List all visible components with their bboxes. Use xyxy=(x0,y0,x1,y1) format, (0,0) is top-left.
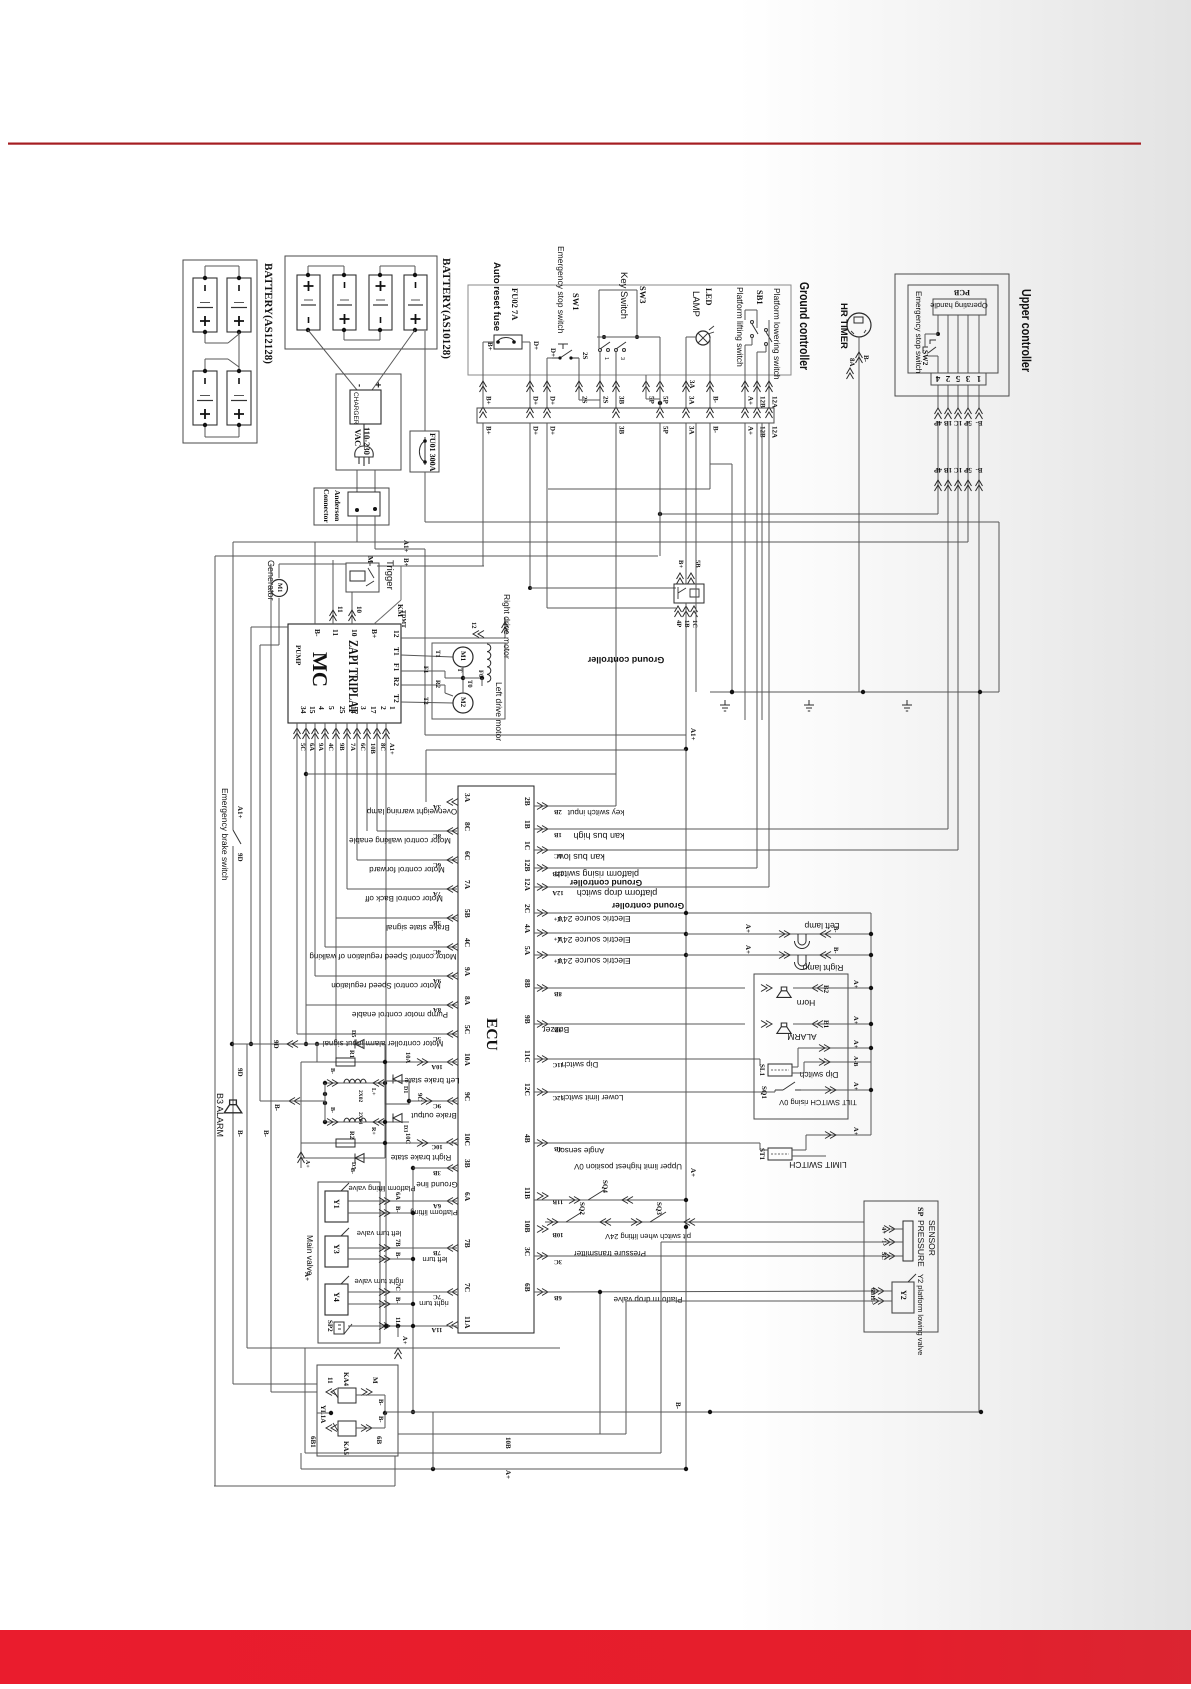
svg-text:+: + xyxy=(372,382,383,388)
svg-text:6B: 6B xyxy=(375,1436,383,1445)
svg-text:Ground line: Ground line xyxy=(416,1180,458,1189)
svg-text:A+: A+ xyxy=(747,426,755,435)
svg-text:8B: 8B xyxy=(523,979,532,988)
svg-text:6A: 6A xyxy=(308,743,315,751)
svg-text:Left brake state: Left brake state xyxy=(404,1076,460,1085)
svg-text:11A: 11A xyxy=(463,1316,472,1329)
svg-text:TILT SWITCH rising 0V: TILT SWITCH rising 0V xyxy=(779,1098,857,1107)
svg-text:B-: B- xyxy=(832,926,839,933)
svg-text:Motor control Speed regulatio: Motor control Speed regulation of walkin… xyxy=(309,952,456,961)
svg-text:10: 10 xyxy=(350,629,359,637)
svg-text:9B: 9B xyxy=(523,1015,532,1024)
svg-text:6B1B-: 6B1B- xyxy=(869,1288,875,1304)
svg-text:B+: B+ xyxy=(485,396,493,405)
svg-text:Dip switch: Dip switch xyxy=(799,1070,838,1080)
svg-text:5A: 5A xyxy=(523,946,532,956)
svg-text:A+: A+ xyxy=(852,1040,859,1049)
svg-text:R2: R2 xyxy=(348,1131,355,1139)
svg-text:R+: R+ xyxy=(370,1127,376,1135)
svg-text:3A: 3A xyxy=(463,793,472,803)
svg-text:Left drive motor: Left drive motor xyxy=(494,682,504,741)
svg-text:FU01 300A: FU01 300A xyxy=(428,433,437,472)
svg-text:platform drop switch: platform drop switch xyxy=(577,888,658,898)
svg-text:5P: 5P xyxy=(662,396,670,405)
svg-text:15: 15 xyxy=(308,706,317,714)
svg-text:D5: D5 xyxy=(350,1030,356,1037)
svg-text:platform rising switch: platform rising switch xyxy=(555,869,639,879)
svg-text:Ground controller: Ground controller xyxy=(797,282,812,370)
svg-text:1B: 1B xyxy=(523,820,532,829)
svg-text:SQ1: SQ1 xyxy=(760,1086,768,1099)
svg-text:9C: 9C xyxy=(416,1093,423,1101)
svg-text:A+: A+ xyxy=(504,1470,512,1479)
svg-text:B-: B- xyxy=(394,1252,401,1259)
svg-text:B-: B- xyxy=(674,1402,682,1410)
svg-text:2B: 2B xyxy=(523,797,532,806)
svg-text:17: 17 xyxy=(369,706,378,714)
svg-text:Motor control Back off: Motor control Back off xyxy=(364,894,442,903)
svg-text:11: 11 xyxy=(336,606,344,613)
svg-text:SW3: SW3 xyxy=(638,286,648,303)
svg-text:Platform lifting valve: Platform lifting valve xyxy=(348,1184,415,1193)
svg-text:BATTERY(AS12128): BATTERY(AS12128) xyxy=(262,263,274,364)
svg-text:B-: B- xyxy=(975,466,983,474)
svg-text:T1: T1 xyxy=(392,647,401,656)
svg-text:8A: 8A xyxy=(848,358,856,367)
svg-text:Ground controller: Ground controller xyxy=(587,655,664,665)
svg-text:B-: B- xyxy=(832,947,839,954)
svg-text:Brake output: Brake output xyxy=(411,1111,457,1120)
svg-text:9D: 9D xyxy=(236,853,244,862)
svg-text:25: 25 xyxy=(338,706,347,714)
svg-text:PCB: PCB xyxy=(953,288,970,297)
svg-text:PRESSURE: PRESSURE xyxy=(916,1220,926,1267)
svg-text:2: 2 xyxy=(945,374,950,384)
svg-text:10C: 10C xyxy=(463,1133,472,1146)
svg-text:6A: 6A xyxy=(463,1192,472,1202)
svg-text:B-: B- xyxy=(236,1130,244,1138)
svg-text:M: M xyxy=(366,556,375,563)
svg-text:Y2 platform lowing valve: Y2 platform lowing valve xyxy=(916,1274,925,1355)
svg-text:A+: A+ xyxy=(744,924,752,933)
svg-text:L+: L+ xyxy=(370,1088,376,1096)
svg-text:Overweight warning lamp: Overweight warning lamp xyxy=(366,807,457,816)
svg-text:B-: B- xyxy=(862,355,870,363)
svg-text:10A: 10A xyxy=(431,1063,443,1070)
svg-text:M2: M2 xyxy=(459,697,467,708)
svg-text:Key Switch: Key Switch xyxy=(618,272,629,319)
svg-text:Emergency brake switch: Emergency brake switch xyxy=(220,788,230,881)
svg-text:7A: 7A xyxy=(463,880,472,890)
svg-text:Electric source 24V: Electric source 24V xyxy=(557,956,631,966)
svg-text:Right brake state: Right brake state xyxy=(390,1153,451,1162)
svg-text:Dip switch: Dip switch xyxy=(562,1060,598,1069)
svg-text:MC: MC xyxy=(308,652,332,687)
svg-text:PUMP: PUMP xyxy=(294,645,302,666)
svg-text:A+: A+ xyxy=(744,945,752,954)
svg-text:3C: 3C xyxy=(523,1247,532,1256)
svg-text:B3 ALARM: B3 ALARM xyxy=(215,1093,225,1137)
svg-text:Pressure transmitter: Pressure transmitter xyxy=(574,1249,646,1258)
svg-text:2S: 2S xyxy=(581,352,589,360)
svg-text:LED: LED xyxy=(704,288,714,305)
svg-text:Horn: Horn xyxy=(797,998,816,1008)
svg-text:A1+: A1+ xyxy=(388,743,395,755)
svg-text:10C: 10C xyxy=(404,1133,411,1145)
svg-text:T1: T1 xyxy=(434,650,441,658)
svg-text:12C: 12C xyxy=(523,1083,532,1096)
svg-text:T: T xyxy=(456,668,463,673)
svg-text:3: 3 xyxy=(359,706,368,710)
svg-text:7B: 7B xyxy=(463,1239,472,1248)
svg-text:5P: 5P xyxy=(963,466,972,474)
svg-text:B-: B- xyxy=(377,1416,384,1423)
svg-text:B2: B2 xyxy=(822,985,830,994)
svg-text:A1+: A1+ xyxy=(236,806,244,819)
svg-text:Brake state signal: Brake state signal xyxy=(386,923,450,932)
svg-text:B+: B+ xyxy=(486,342,494,351)
svg-text:5C: 5C xyxy=(463,1025,472,1034)
svg-text:2C: 2C xyxy=(523,904,532,913)
svg-text:1C: 1C xyxy=(954,466,963,474)
svg-text:9C: 9C xyxy=(433,1102,441,1109)
svg-text:12B: 12B xyxy=(759,396,767,408)
svg-text:kan bus high: kan bus high xyxy=(573,831,624,841)
svg-text:3C: 3C xyxy=(554,1258,562,1265)
svg-text:3B: 3B xyxy=(618,396,626,405)
svg-text:Platform lowering switch: Platform lowering switch xyxy=(772,288,782,380)
svg-text:12: 12 xyxy=(470,622,477,629)
svg-text:1-: 1- xyxy=(880,1240,887,1245)
svg-text:4: 4 xyxy=(935,374,940,384)
svg-text:3A: 3A xyxy=(688,426,696,435)
svg-text:7A: 7A xyxy=(349,743,356,751)
svg-text:LIMIT SWITCH: LIMIT SWITCH xyxy=(789,1160,846,1170)
svg-text:right turn: right turn xyxy=(419,1299,449,1308)
svg-text:left turn valve: left turn valve xyxy=(357,1229,402,1238)
svg-text:key switch input: key switch input xyxy=(567,808,624,817)
svg-text:SP: SP xyxy=(916,1207,925,1216)
svg-text:A+: A+ xyxy=(304,1160,310,1168)
svg-text:Right lamp: Right lamp xyxy=(802,963,843,973)
svg-text:11: 11 xyxy=(326,1377,334,1384)
svg-text:M: M xyxy=(371,1377,379,1384)
svg-text:A+: A+ xyxy=(852,1016,859,1025)
svg-text:A+: A+ xyxy=(852,980,859,989)
svg-text:ALARM: ALARM xyxy=(787,1032,816,1042)
svg-text:8C: 8C xyxy=(379,743,386,751)
svg-text:BATTERY(AS10128): BATTERY(AS10128) xyxy=(440,258,452,359)
svg-text:D+: D+ xyxy=(549,426,557,435)
svg-text:3: 3 xyxy=(965,374,970,384)
svg-text:5: 5 xyxy=(327,706,336,710)
svg-text:A+: A+ xyxy=(303,1272,311,1281)
svg-text:M1: M1 xyxy=(276,583,283,592)
svg-text:6C: 6C xyxy=(463,851,472,860)
svg-text:SL1: SL1 xyxy=(758,1064,766,1077)
svg-text:Buzzer: Buzzer xyxy=(543,1025,570,1035)
svg-text:10B: 10B xyxy=(552,1231,564,1238)
svg-text:-: - xyxy=(355,384,365,387)
svg-text:SQ3: SQ3 xyxy=(655,1202,663,1215)
svg-text:B-: B- xyxy=(273,1104,281,1112)
svg-text:6C: 6C xyxy=(359,743,366,751)
svg-text:ECU: ECU xyxy=(483,1018,500,1051)
svg-text:6A: 6A xyxy=(394,1192,401,1200)
svg-text:CHARGER: CHARGER xyxy=(352,392,359,425)
svg-text:6B1: 6B1 xyxy=(309,1436,317,1448)
svg-text:7C: 7C xyxy=(463,1283,472,1292)
svg-text:2: 2 xyxy=(379,706,388,710)
svg-text:10A: 10A xyxy=(463,1053,472,1067)
svg-text:4+: 4+ xyxy=(880,1227,887,1234)
svg-text:10B: 10B xyxy=(504,1437,512,1449)
svg-text:8B: 8B xyxy=(554,990,562,997)
svg-text:F1: F1 xyxy=(422,666,429,673)
svg-text:B-: B- xyxy=(712,396,720,404)
svg-text:B-: B- xyxy=(349,1168,355,1174)
svg-text:5B: 5B xyxy=(694,560,701,568)
svg-text:11A: 11A xyxy=(431,1326,442,1333)
svg-text:11B: 11B xyxy=(523,1187,532,1199)
svg-text:SQ4: SQ4 xyxy=(601,1180,609,1193)
svg-text:1C: 1C xyxy=(523,841,532,850)
svg-text:Platform lifting switch: Platform lifting switch xyxy=(735,287,745,367)
svg-text:B-: B- xyxy=(394,1206,401,1213)
svg-text:5P: 5P xyxy=(648,396,656,405)
svg-text:B+: B+ xyxy=(370,629,379,638)
svg-text:3B: 3B xyxy=(463,1159,472,1168)
svg-text:9D: 9D xyxy=(236,1068,244,1077)
svg-text:6B: 6B xyxy=(554,1294,562,1301)
svg-text:Pump motor control enable: Pump motor control enable xyxy=(351,1010,448,1019)
svg-text:10B: 10B xyxy=(369,743,376,755)
svg-text:7B: 7B xyxy=(433,1249,441,1256)
svg-text:11C: 11C xyxy=(523,1050,532,1063)
svg-text:LAMP: LAMP xyxy=(690,291,701,317)
svg-text:B+: B+ xyxy=(402,558,410,567)
svg-text:KA4: KA4 xyxy=(342,1372,350,1387)
svg-text:B+: B+ xyxy=(485,426,493,435)
svg-text:9B: 9B xyxy=(338,743,345,751)
svg-text:5C: 5C xyxy=(299,743,306,751)
svg-text:12: 12 xyxy=(392,630,401,638)
svg-text:SB1: SB1 xyxy=(755,290,765,305)
svg-text:Y4: Y4 xyxy=(332,1292,341,1302)
svg-text:A+: A+ xyxy=(747,396,755,405)
svg-text:T2: T2 xyxy=(422,697,429,705)
svg-text:Anderson: Anderson xyxy=(333,490,342,522)
svg-text:T2: T2 xyxy=(392,694,401,703)
svg-text:11C: 11C xyxy=(552,1061,563,1068)
svg-text:Y1: Y1 xyxy=(332,1199,341,1209)
svg-text:R1: R1 xyxy=(348,1050,355,1058)
svg-text:SENSOR: SENSOR xyxy=(927,1220,937,1256)
svg-text:1B: 1B xyxy=(944,466,953,474)
svg-text:Electric source 24V: Electric source 24V xyxy=(557,914,631,924)
svg-text:11: 11 xyxy=(331,629,340,636)
svg-text:Y3: Y3 xyxy=(332,1244,341,1254)
svg-text:D+: D+ xyxy=(532,396,540,405)
svg-text:B-: B- xyxy=(313,629,322,637)
svg-text:R2: R2 xyxy=(434,680,441,688)
svg-text:3A: 3A xyxy=(688,380,696,389)
svg-text:1C: 1C xyxy=(691,620,698,628)
svg-text:SQ2: SQ2 xyxy=(578,1202,586,1215)
svg-text:1: 1 xyxy=(388,706,397,710)
svg-text:3C: 3C xyxy=(880,1252,887,1260)
svg-text:3: 3 xyxy=(619,357,625,360)
svg-text:Lower limit switch: Lower limit switch xyxy=(561,1093,624,1102)
svg-text:Main valve: Main valve xyxy=(305,1235,315,1276)
svg-text:B+: B+ xyxy=(677,560,684,568)
svg-text:R2: R2 xyxy=(392,677,401,686)
svg-text:2B: 2B xyxy=(554,808,562,815)
svg-text:5B: 5B xyxy=(463,909,472,918)
svg-text:11B: 11B xyxy=(552,1198,563,1205)
svg-text:Electric source 24V: Electric source 24V xyxy=(557,935,631,945)
svg-text:9D: 9D xyxy=(272,1040,280,1049)
svg-text:B-: B- xyxy=(262,1130,270,1138)
svg-text:9A: 9A xyxy=(317,743,324,751)
svg-text:Operating handle: Operating handle xyxy=(930,301,988,310)
svg-text:Right drive motor: Right drive motor xyxy=(502,594,512,659)
svg-text:3B: 3B xyxy=(433,1169,441,1176)
svg-text:A+: A+ xyxy=(689,1168,697,1177)
svg-text:B-: B- xyxy=(394,1297,401,1304)
svg-text:7B: 7B xyxy=(394,1239,401,1247)
svg-text:Motor control walking enable: Motor control walking enable xyxy=(349,836,451,845)
svg-text:T0: T0 xyxy=(466,680,473,688)
svg-text:10: 10 xyxy=(355,606,363,614)
svg-text:6A: 6A xyxy=(433,1202,441,1209)
svg-text:34: 34 xyxy=(299,706,308,714)
svg-text:Upper limit highest position 0: Upper limit highest position 0V xyxy=(573,1162,682,1171)
svg-text:9A: 9A xyxy=(463,967,472,977)
svg-text:4C: 4C xyxy=(463,938,472,947)
svg-text:Trigger: Trigger xyxy=(384,560,395,590)
svg-text:Motor control Speed regulatio: Motor control Speed regulation xyxy=(331,981,440,990)
svg-text:Motor control forward: Motor control forward xyxy=(369,865,445,874)
svg-text:4A: 4A xyxy=(523,924,532,934)
svg-text:A1+: A1+ xyxy=(689,728,697,741)
svg-text:9C: 9C xyxy=(463,1092,472,1101)
svg-text:2X02: 2X02 xyxy=(357,1090,363,1102)
svg-text:12B: 12B xyxy=(523,859,532,872)
svg-text:left turn: left turn xyxy=(422,1255,447,1264)
svg-text:Platform lifting: Platform lifting xyxy=(410,1208,458,1217)
svg-text:D+: D+ xyxy=(532,341,540,350)
svg-text:12A: 12A xyxy=(523,878,532,892)
svg-text:F1: F1 xyxy=(392,663,401,672)
svg-text:1: 1 xyxy=(976,374,981,384)
svg-text:12A: 12A xyxy=(552,889,564,896)
svg-text:A+: A+ xyxy=(401,1336,408,1345)
svg-text:Y2: Y2 xyxy=(899,1290,908,1300)
svg-text:B-: B- xyxy=(329,1068,335,1074)
svg-text:Auto reset fuse: Auto reset fuse xyxy=(491,262,502,331)
svg-text:6B: 6B xyxy=(523,1283,532,1292)
svg-text:pit switch when lifting 24V: pit switch when lifting 24V xyxy=(605,1232,691,1241)
svg-text:4B: 4B xyxy=(523,1134,532,1143)
svg-text:Upper controller: Upper controller xyxy=(1019,289,1034,372)
svg-text:10A: 10A xyxy=(404,1052,411,1064)
svg-text:4: 4 xyxy=(317,706,326,710)
svg-text:12A: 12A xyxy=(771,396,779,408)
svg-text:YL1A: YL1A xyxy=(319,1405,327,1423)
svg-text:D+: D+ xyxy=(532,426,540,435)
svg-text:B-: B- xyxy=(712,426,720,434)
svg-text:B-: B- xyxy=(377,1399,384,1406)
svg-text:Ground controller: Ground controller xyxy=(611,901,684,911)
svg-text:8A: 8A xyxy=(463,996,472,1006)
svg-text:A+: A+ xyxy=(852,1082,859,1091)
svg-text:3A: 3A xyxy=(688,396,696,405)
svg-text:FU02 7A: FU02 7A xyxy=(510,288,520,321)
svg-text:14: 14 xyxy=(349,706,358,714)
svg-text:Connector: Connector xyxy=(322,489,331,523)
svg-text:Platform drop valve: Platform drop valve xyxy=(613,1295,682,1304)
svg-text:TDMT: TDMT xyxy=(400,610,406,628)
svg-text:HR TIMER: HR TIMER xyxy=(838,303,849,349)
svg-text:Emergency stop switch: Emergency stop switch xyxy=(556,246,566,334)
svg-text:kan bus low: kan bus low xyxy=(557,852,605,862)
svg-text:VAC: VAC xyxy=(353,429,363,446)
svg-text:3B: 3B xyxy=(618,426,626,435)
svg-text:5: 5 xyxy=(955,374,960,384)
svg-text:12A: 12A xyxy=(771,426,779,438)
svg-text:Angle sensor: Angle sensor xyxy=(557,1146,604,1155)
svg-text:F0: F0 xyxy=(477,670,484,677)
svg-text:10C: 10C xyxy=(431,1143,443,1150)
svg-text:7C: 7C xyxy=(433,1293,441,1300)
svg-text:10B: 10B xyxy=(523,1220,532,1233)
svg-text:D3: D3 xyxy=(402,1125,408,1132)
svg-text:1B: 1B xyxy=(554,831,562,838)
svg-text:1: 1 xyxy=(603,357,609,360)
svg-text:ZAPI TRIPLAT: ZAPI TRIPLAT xyxy=(346,640,361,714)
svg-text:B-: B- xyxy=(329,1107,335,1113)
svg-text:A+: A+ xyxy=(852,1127,859,1136)
svg-text:4P: 4P xyxy=(675,620,682,627)
svg-text:4P: 4P xyxy=(933,466,942,474)
svg-text:7C: 7C xyxy=(394,1283,401,1291)
svg-text:2S: 2S xyxy=(602,396,610,404)
svg-text:D+: D+ xyxy=(549,348,557,357)
svg-text:D+: D+ xyxy=(549,396,557,405)
svg-text:SP2: SP2 xyxy=(326,1320,334,1332)
svg-text:D1: D1 xyxy=(402,1086,408,1093)
svg-text:A-B: A-B xyxy=(852,1056,858,1066)
svg-text:M1: M1 xyxy=(459,651,467,662)
svg-text:5P: 5P xyxy=(662,426,670,435)
svg-text:4C: 4C xyxy=(327,743,334,751)
svg-text:SW1: SW1 xyxy=(571,293,581,310)
svg-text:8C: 8C xyxy=(463,822,472,831)
